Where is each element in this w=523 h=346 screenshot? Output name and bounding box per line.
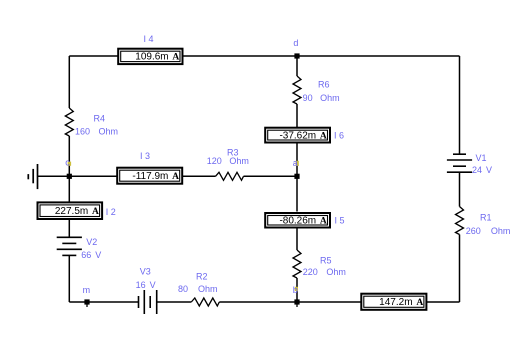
svg-text:V3: V3: [140, 267, 151, 277]
svg-text:120 Ohm: 120 Ohm: [207, 156, 249, 166]
svg-text:R4: R4: [94, 113, 106, 123]
svg-text:220 Ohm: 220 Ohm: [303, 267, 346, 277]
svg-text:160 Ohm: 160 Ohm: [75, 126, 118, 136]
svg-text:m: m: [83, 285, 91, 295]
svg-text:I 5: I 5: [335, 216, 345, 226]
svg-text:66 V: 66 V: [81, 250, 101, 260]
svg-text:24 V: 24 V: [472, 165, 492, 175]
svg-text:-37.62m A: -37.62m A: [279, 130, 326, 141]
svg-text:V2: V2: [86, 237, 97, 247]
svg-text:147.2m A: 147.2m A: [379, 297, 423, 308]
svg-text:I 4: I 4: [143, 34, 153, 44]
svg-text:R6: R6: [318, 80, 330, 90]
svg-text:R2: R2: [196, 272, 208, 282]
svg-text:I 2: I 2: [106, 207, 116, 217]
svg-text:I 3: I 3: [140, 151, 150, 161]
svg-text:260 Ohm: 260 Ohm: [466, 226, 511, 236]
svg-text:16 V: 16 V: [136, 280, 156, 290]
svg-text:-80.26m A: -80.26m A: [279, 215, 326, 226]
svg-text:b: b: [293, 285, 298, 295]
svg-text:R5: R5: [320, 255, 332, 265]
svg-text:109.6m A: 109.6m A: [135, 52, 179, 63]
svg-text:R1: R1: [480, 212, 492, 222]
svg-text:a: a: [293, 158, 298, 168]
svg-text:I 6: I 6: [334, 131, 344, 141]
svg-text:90 Ohm: 90 Ohm: [303, 93, 340, 103]
svg-text:227.5m A: 227.5m A: [55, 206, 99, 217]
svg-text:80 Ohm: 80 Ohm: [178, 284, 218, 294]
svg-text:d: d: [293, 38, 298, 48]
svg-text:c: c: [65, 158, 70, 168]
svg-text:-117.9m A: -117.9m A: [132, 171, 179, 182]
svg-text:V1: V1: [476, 153, 487, 163]
